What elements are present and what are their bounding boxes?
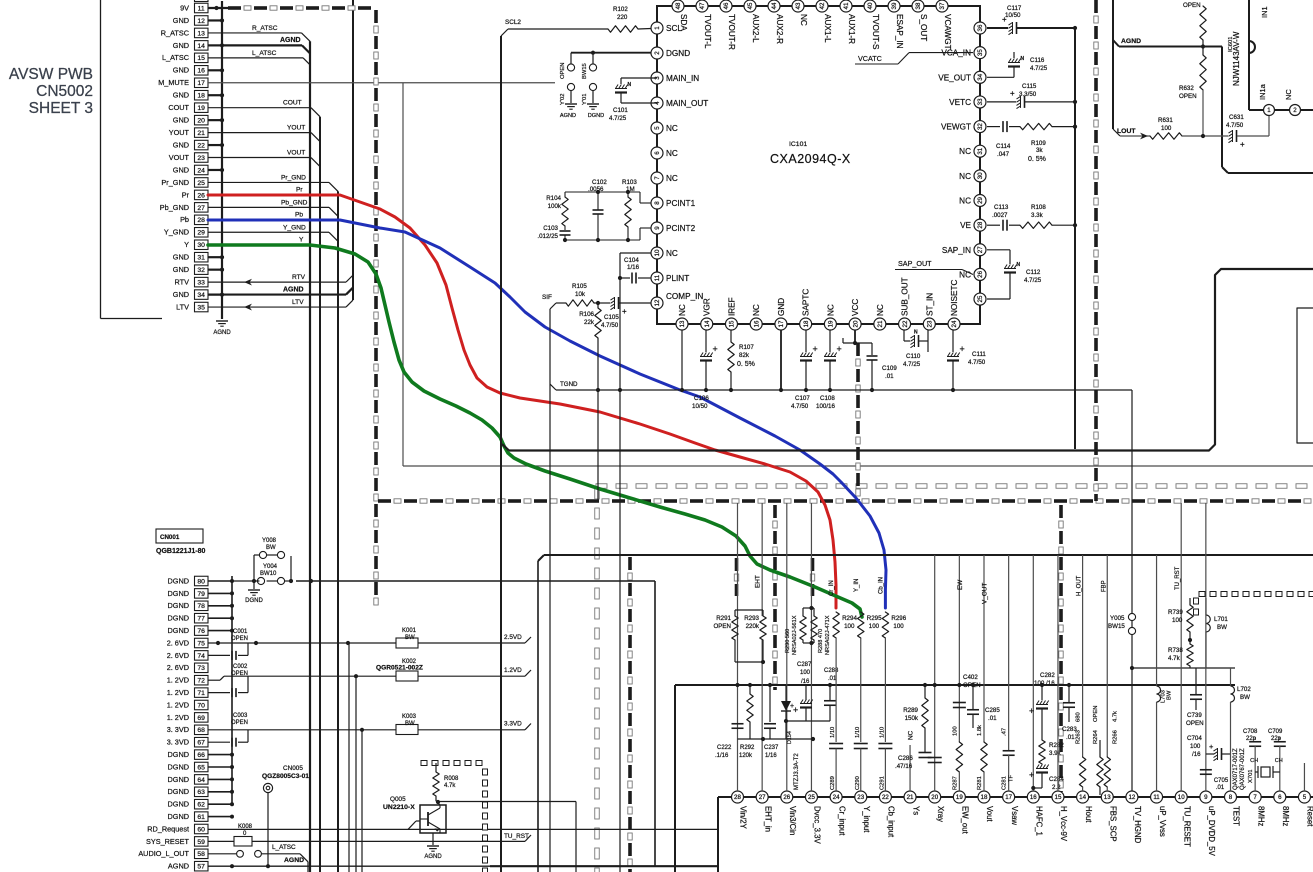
svg-text:5: 5: [654, 126, 661, 130]
wire vertical x=362 from 3.3VD: [361, 730, 363, 872]
wire pin20 Xray vertical with cap: [928, 555, 942, 791]
wire pin5 Reset stub: [1303, 763, 1305, 791]
svg-text:C282: C282: [1040, 672, 1055, 679]
capacitor C285 .01: [967, 683, 1000, 728]
svg-text:EHT: EHT: [755, 575, 762, 588]
svg-text:22: 22: [902, 320, 909, 327]
svg-text:100/16: 100/16: [816, 403, 835, 410]
svg-text:Pr: Pr: [296, 187, 303, 194]
svg-text:GND: GND: [173, 165, 189, 174]
svg-text:59: 59: [197, 839, 205, 846]
svg-text:Xray: Xray: [936, 806, 945, 822]
resistor R104 100k / caps C102 C103 / resistor R103 1M network: [537, 179, 651, 242]
svg-text:IN1a: IN1a: [1258, 83, 1267, 100]
svg-text:.0056: .0056: [588, 186, 604, 193]
svg-text:AGND: AGND: [168, 862, 189, 871]
svg-text:100: 100: [869, 623, 880, 630]
svg-text:DGND: DGND: [168, 601, 190, 610]
svg-text:VOUT: VOUT: [287, 150, 305, 157]
svg-text:0. 5%: 0. 5%: [737, 361, 755, 368]
svg-text:20: 20: [197, 118, 205, 125]
svg-text:L701: L701: [1214, 616, 1228, 623]
svg-text:22: 22: [882, 794, 889, 801]
svg-text:PCINT2: PCINT2: [666, 224, 696, 233]
svg-text:GND: GND: [173, 91, 189, 100]
svg-text:Pb: Pb: [180, 215, 189, 224]
svg-text:15: 15: [197, 55, 205, 62]
svg-text:32: 32: [977, 123, 984, 130]
svg-text:NJW1143AV-W: NJW1143AV-W: [1232, 31, 1241, 86]
svg-text:66: 66: [197, 752, 205, 759]
svg-text:YOUT: YOUT: [169, 128, 190, 137]
svg-text:OPEN: OPEN: [1186, 720, 1204, 727]
svg-text:680: 680: [1076, 712, 1082, 722]
ground symbol AGND at bus bottom: [213, 321, 231, 336]
svg-text:DGND: DGND: [245, 598, 263, 604]
svg-text:Ys: Ys: [911, 806, 920, 815]
svg-text:+: +: [813, 344, 818, 354]
svg-text:CN005: CN005: [283, 765, 303, 772]
svg-text:36: 36: [977, 24, 984, 31]
svg-text:3.3k: 3.3k: [1031, 212, 1044, 219]
svg-text:33: 33: [977, 98, 984, 105]
svg-text:15: 15: [729, 320, 736, 327]
svg-text:C708: C708: [1243, 729, 1258, 735]
svg-text:3k: 3k: [1036, 147, 1043, 154]
svg-text:COMP_IN: COMP_IN: [666, 292, 703, 301]
capacitor C402 OPEN: [953, 674, 981, 708]
svg-text:C631: C631: [1229, 114, 1244, 121]
svg-text:C704: C704: [1187, 735, 1202, 742]
wire pin25 Dvcc vertical: [810, 503, 812, 791]
svg-text:30: 30: [197, 242, 205, 249]
svg-text:Cb_input: Cb_input: [887, 806, 896, 838]
GND pin wires to bus: [208, 18, 224, 296]
wire thick rail y=450.5: [502, 444, 1209, 451]
svg-text:NC: NC: [908, 730, 915, 740]
svg-text:SHEET 3: SHEET 3: [29, 100, 93, 117]
svg-text:BW15: BW15: [1108, 623, 1125, 630]
svg-text:3.3/50: 3.3/50: [1019, 91, 1037, 98]
svg-text:R282: R282: [1049, 742, 1064, 749]
wire pin21 Ys NC stub: [908, 730, 915, 791]
wire pin17 GND to TGND: [779, 330, 783, 392]
wire pin11 uP_Vvss vertical inductor L703 BW: [1157, 555, 1173, 791]
svg-text:28: 28: [197, 217, 205, 224]
resistor R293 220k: [735, 610, 766, 664]
svg-text:AGND: AGND: [283, 286, 304, 293]
svg-text:N: N: [628, 82, 632, 88]
svg-text:C102: C102: [592, 179, 607, 186]
op-amp IC601 NJW1143AV-W outline: [1228, 0, 1313, 110]
capacitor C289 1/10 series: [829, 727, 843, 791]
zener diode D154 MTZJ3.3A-T2: [781, 685, 800, 790]
svg-text:AUX1-L: AUX1-L: [823, 14, 832, 43]
svg-text:4.7/50: 4.7/50: [791, 403, 809, 410]
svg-text:C112: C112: [1026, 269, 1041, 276]
net SCL2 wire and resistor R102 220: [501, 6, 651, 36]
thick blue wire Pb signal: [208, 220, 886, 608]
svg-text:C101: C101: [613, 107, 628, 114]
svg-text:71: 71: [197, 690, 205, 697]
svg-text:Y_input: Y_input: [862, 806, 871, 833]
svg-text:R287: R287: [952, 776, 958, 790]
svg-text:K001: K001: [402, 628, 417, 634]
svg-text:OPEN: OPEN: [231, 671, 248, 677]
svg-text:R296: R296: [891, 615, 906, 622]
svg-text:BW15: BW15: [582, 63, 588, 79]
bus GND vertical x=338: [337, 191, 339, 872]
svg-text:1.8k: 1.8k: [977, 725, 983, 736]
svg-text:Y'01: Y'01: [582, 94, 588, 105]
component K008 0 on SYS_RESET: [208, 824, 531, 846]
capacitor C104 1/16 and PLINT wiring: [618, 253, 651, 872]
svg-text:QAX0717-001Z: QAX0717-001Z: [1233, 748, 1239, 790]
svg-text:4.7k: 4.7k: [1168, 655, 1181, 662]
svg-text:NC: NC: [666, 124, 678, 133]
svg-text:X701: X701: [1248, 769, 1254, 783]
svg-text:2.2: 2.2: [1052, 784, 1061, 791]
jumper Y'01 BW15: [582, 63, 597, 105]
node VCATC label and wire to pin35: [855, 53, 973, 64]
net RD_Request wire to bottom IC: [208, 821, 718, 829]
svg-text:1: 1: [654, 26, 661, 30]
svg-text:10: 10: [654, 249, 661, 256]
svg-text:DGND: DGND: [168, 576, 190, 585]
svg-text:OPEN: OPEN: [231, 720, 248, 726]
svg-text:48: 48: [675, 2, 682, 9]
svg-text:220: 220: [617, 14, 628, 21]
svg-text:24: 24: [951, 320, 958, 327]
svg-text:DGND: DGND: [168, 589, 190, 598]
box right sheet outline: [1209, 269, 1313, 451]
svg-text:TV_HGND: TV_HGND: [1133, 806, 1142, 844]
svg-text:4.7/25: 4.7/25: [1024, 277, 1042, 284]
svg-text:45: 45: [747, 2, 754, 9]
svg-text:68: 68: [197, 727, 205, 734]
svg-text:R281: R281: [977, 776, 983, 790]
svg-text:R739: R739: [1168, 609, 1183, 616]
svg-text:DGND: DGND: [168, 750, 190, 759]
svg-text:R106: R106: [579, 311, 594, 318]
dashed border vertical x=1096: [1094, 0, 1098, 501]
svg-text:43: 43: [795, 2, 802, 9]
svg-text:DGND: DGND: [168, 775, 190, 784]
svg-text:1. 2VD: 1. 2VD: [167, 713, 189, 722]
op-amp bottom IC body top edge: [718, 797, 1313, 872]
svg-text:C105: C105: [604, 314, 619, 321]
svg-text:C107: C107: [795, 395, 810, 402]
sheet bracket line: [101, 0, 163, 319]
svg-text:CH: CH: [1250, 758, 1258, 764]
net TU_RST wire from Q005 collector: [438, 802, 576, 872]
svg-text:1. 2VD: 1. 2VD: [167, 688, 189, 697]
svg-text:Vout: Vout: [985, 806, 994, 822]
svg-text:TF: TF: [1009, 774, 1015, 782]
wire pin13 to TGND: [680, 330, 684, 392]
svg-text:+: +: [713, 344, 718, 354]
svg-text:SCL2: SCL2: [505, 19, 521, 26]
IC101 left pins 1-12: [651, 22, 708, 309]
svg-text:10: 10: [1178, 794, 1185, 801]
svg-text:C286: C286: [898, 755, 913, 762]
svg-text:C106: C106: [694, 395, 709, 402]
svg-text:67: 67: [197, 740, 205, 747]
svg-text:100: 100: [952, 726, 958, 736]
svg-text:4.7/50: 4.7/50: [1226, 122, 1244, 129]
svg-text:C705: C705: [1214, 778, 1229, 784]
svg-text:DGND: DGND: [588, 113, 604, 119]
resistor R106 22k: [579, 301, 601, 501]
svg-text:Cr_IN: Cr_IN: [829, 580, 835, 596]
svg-text:R291: R291: [716, 615, 731, 622]
svg-text:VCC: VCC: [851, 299, 860, 316]
svg-text:R_ATSC: R_ATSC: [252, 25, 278, 32]
svg-text:OPEN: OPEN: [713, 623, 731, 630]
svg-text:39: 39: [891, 2, 898, 9]
svg-text:N: N: [1021, 56, 1025, 62]
svg-text:1/10: 1/10: [855, 727, 861, 738]
svg-text:L_ATSC: L_ATSC: [272, 844, 296, 851]
svg-text:FBS_SCP: FBS_SCP: [1108, 806, 1117, 842]
svg-text:11: 11: [654, 274, 661, 281]
svg-text:C114: C114: [996, 143, 1011, 150]
svg-text:M_MUTE: M_MUTE: [158, 78, 189, 87]
svg-text:C103: C103: [543, 225, 558, 232]
svg-text:R294: R294: [842, 615, 857, 622]
svg-text:30: 30: [977, 172, 984, 179]
svg-text:NC: NC: [678, 304, 687, 316]
svg-text:R102: R102: [613, 6, 628, 13]
svg-text:TU_RST: TU_RST: [504, 833, 529, 840]
svg-text:VETC: VETC: [949, 98, 971, 107]
svg-text:26: 26: [197, 192, 205, 199]
svg-text:NC: NC: [666, 249, 678, 258]
svg-text:OPEN: OPEN: [1179, 93, 1197, 100]
svg-text:/16: /16: [1192, 751, 1201, 758]
svg-text:41: 41: [843, 2, 850, 9]
svg-text:AUX1-R: AUX1-R: [847, 14, 856, 44]
svg-text:YOUT: YOUT: [287, 125, 305, 132]
svg-text:R292: R292: [740, 745, 755, 751]
svg-text:Y_GND: Y_GND: [164, 228, 189, 237]
svg-text:OPEN: OPEN: [1093, 706, 1099, 722]
svg-text:73: 73: [197, 665, 205, 672]
resistor R008 4.7k: [433, 763, 459, 805]
svg-text:L_ATSC: L_ATSC: [162, 53, 189, 62]
svg-text:EW_out: EW_out: [961, 806, 970, 835]
svg-text:IC101: IC101: [789, 141, 807, 148]
svg-text:L702: L702: [1237, 686, 1251, 693]
IC101 top pins 48-37: [672, 0, 952, 50]
svg-text:23: 23: [197, 155, 205, 162]
svg-text:Cr_input: Cr_input: [837, 806, 846, 836]
thick red wire Pr signal: [208, 195, 836, 608]
svg-text:AVSW PWB: AVSW PWB: [9, 66, 93, 83]
svg-text:DGND: DGND: [168, 762, 190, 771]
capacitor C739 OPEN: [1186, 668, 1204, 727]
svg-text:Vsaw: Vsaw: [1010, 806, 1019, 825]
capacitor C283 .01: [1062, 683, 1077, 741]
svg-text:R289: R289: [903, 707, 918, 714]
svg-text:R288 470: R288 470: [818, 629, 824, 653]
box small right outline: [1297, 308, 1313, 443]
svg-text:76: 76: [197, 628, 205, 635]
svg-text:TU_RESET: TU_RESET: [1182, 806, 1191, 847]
svg-text:CN001: CN001: [160, 534, 180, 541]
svg-text:PLINT: PLINT: [666, 274, 689, 283]
svg-text:27: 27: [197, 205, 205, 212]
svg-text:2. 6VD: 2. 6VD: [167, 651, 189, 660]
svg-text:7: 7: [654, 176, 661, 180]
svg-text:Pr: Pr: [182, 190, 190, 199]
svg-text:NRSA02J-471X: NRSA02J-471X: [825, 615, 831, 655]
svg-text:10k: 10k: [575, 291, 586, 298]
svg-text:78: 78: [197, 603, 205, 610]
svg-text:GND: GND: [173, 16, 189, 25]
capacitor C708 22p: [1243, 729, 1261, 791]
svg-text:27: 27: [977, 246, 984, 253]
svg-text:34: 34: [977, 73, 984, 80]
svg-text:COUT: COUT: [283, 100, 302, 107]
resistor R295 100 Y: [854, 579, 882, 742]
wire pin17 Vsaw vertical capacitor C281 .47: [1002, 555, 1015, 791]
svg-text:21: 21: [877, 320, 884, 327]
svg-text:C709: C709: [1268, 729, 1283, 735]
svg-text:100: 100: [800, 670, 811, 676]
svg-text:Vin/2Y: Vin/2Y: [739, 806, 748, 830]
svg-text:SAP_IN: SAP_IN: [942, 246, 971, 255]
svg-text:C291: C291: [879, 776, 885, 790]
svg-text:MAIN_OUT: MAIN_OUT: [666, 99, 708, 108]
svg-text:17: 17: [1005, 794, 1012, 801]
svg-text:21: 21: [197, 130, 205, 137]
svg-text:C290: C290: [855, 776, 861, 790]
dashed stub x=737: [735, 558, 739, 596]
svg-text:TGND: TGND: [560, 381, 578, 388]
svg-text:BW: BW: [266, 545, 276, 551]
svg-text:R264: R264: [1093, 729, 1099, 744]
resistor R296 100 Cb: [878, 577, 906, 742]
svg-text:GND: GND: [173, 66, 189, 75]
net 1.2VD line with K002 QGR0521-002Z: [208, 659, 531, 681]
svg-text:N: N: [1017, 262, 1021, 268]
svg-text:EHT_in: EHT_in: [763, 806, 772, 832]
dashed border vertical x=775 lower: [773, 505, 777, 690]
svg-text:ST_IN: ST_IN: [925, 293, 934, 316]
svg-text:TVOUT-R: TVOUT-R: [727, 14, 736, 50]
svg-text:SDA: SDA: [679, 14, 688, 31]
net AGND pin57 wire: [208, 857, 718, 868]
svg-text:CXA2094Q-X: CXA2094Q-X: [770, 152, 851, 166]
svg-text:100: 100: [1161, 125, 1172, 132]
jumper Y'02 OPEN: [560, 63, 575, 105]
svg-text:3.3VD: 3.3VD: [504, 721, 522, 728]
net COUT wire from pin19: [208, 100, 320, 117]
svg-text:+: +: [793, 705, 798, 715]
svg-text:Reset: Reset: [1306, 806, 1313, 827]
svg-text:MTZJ3.3A-T2: MTZJ3.3A-T2: [794, 753, 800, 790]
svg-text:NC: NC: [959, 147, 971, 156]
wire thick vertical x=501: [500, 36, 502, 872]
svg-text:79: 79: [197, 591, 205, 598]
wire pin14 Hout vertical resistor R263 680: [1076, 555, 1086, 791]
svg-text:R631: R631: [1158, 117, 1173, 124]
svg-text:GND: GND: [173, 265, 189, 274]
svg-text:R290 560: R290 560: [785, 629, 791, 653]
capacitor C237 1/16: [764, 683, 779, 759]
svg-text:Y008: Y008: [262, 538, 277, 544]
capacitor C003 OPEN: [208, 713, 248, 747]
svg-text:TVOUT-S: TVOUT-S: [871, 14, 880, 50]
shield box ticks around Q005: [421, 761, 488, 872]
resistor R633 OPEN top: [1183, 2, 1206, 47]
thick green wire Y signal: [208, 245, 862, 617]
svg-text:R103: R103: [622, 179, 637, 186]
svg-text:21: 21: [907, 794, 914, 801]
svg-text:6: 6: [1278, 794, 1282, 801]
svg-text:58: 58: [197, 851, 205, 858]
svg-text:+: +: [1209, 742, 1214, 751]
svg-text:NRSA02J-561X: NRSA02J-561X: [792, 615, 798, 655]
capacitor C113 .0027 and resistor R108 3.3k: [987, 204, 1077, 231]
op-amp IC101 CXA2094Q-X body: [657, 6, 980, 324]
net YOUT wire from pin21: [208, 125, 320, 142]
dashed border vertical x=858: [856, 343, 860, 500]
ground DGND below jumper Y'01: [587, 103, 599, 105]
svg-text:28: 28: [734, 794, 741, 801]
net L_ATSC wire from pin15: [208, 50, 310, 65]
svg-text:22: 22: [197, 142, 205, 149]
svg-text:CN5002: CN5002: [36, 83, 93, 100]
wire vertical x=538: [537, 561, 539, 872]
svg-text:2. 6VD: 2. 6VD: [167, 663, 189, 672]
shield box ticks crystal area: [1194, 592, 1313, 616]
svg-text:29: 29: [197, 230, 205, 237]
svg-text:100: 100: [844, 623, 855, 630]
svg-text:9: 9: [654, 226, 661, 230]
svg-text:4.7k: 4.7k: [1112, 711, 1118, 722]
svg-text:VCATC: VCATC: [858, 54, 882, 63]
capacitor C287 100/16: [793, 662, 813, 721]
bus vertical x=353 from top: [352, 0, 354, 300]
svg-text:2: 2: [654, 51, 661, 55]
svg-text:C108: C108: [820, 395, 835, 402]
svg-text:R_ATSC: R_ATSC: [161, 28, 189, 37]
svg-text:19: 19: [197, 105, 205, 112]
svg-text:Y005: Y005: [1110, 615, 1125, 622]
svg-text:C109: C109: [882, 365, 897, 372]
capacitor C109 .01 at VCC pin20: [843, 330, 897, 392]
svg-text:NC: NC: [752, 304, 761, 316]
svg-text:100: 100: [1190, 743, 1201, 750]
wire cluster connectors bottom: [738, 719, 831, 741]
svg-text:14: 14: [704, 320, 711, 327]
svg-text:OPEN: OPEN: [231, 636, 248, 642]
svg-text:0. 5%: 0. 5%: [1028, 156, 1046, 163]
svg-text:40: 40: [867, 2, 874, 9]
svg-text:.012/25: .012/25: [537, 233, 558, 240]
net LOUT wire with arrow: [1117, 128, 1150, 139]
svg-text:SAPTC: SAPTC: [802, 289, 811, 316]
svg-text:NC: NC: [826, 304, 835, 316]
svg-text:DGND: DGND: [168, 800, 190, 809]
svg-text:R266: R266: [1112, 730, 1118, 744]
wire DGND pin2 to jumpers: [571, 51, 651, 64]
svg-text:23: 23: [927, 320, 934, 327]
capacitor C112 4.7/25: [987, 250, 1042, 299]
resistor R107 82k 0.5%: [728, 330, 755, 392]
